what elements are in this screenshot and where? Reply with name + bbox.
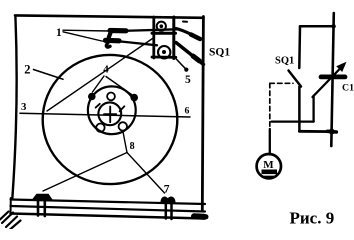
base rail bottom line — [11, 214, 206, 219]
wire: right rail — [331, 13, 334, 146]
left bolt head — [32, 194, 53, 200]
svg-text:SQ1: SQ1 — [209, 47, 230, 59]
capacitor C1 link vertical — [312, 96, 314, 122]
wire: switch top drop — [298, 26, 301, 68]
contact strip 2 — [119, 41, 157, 45]
hub tick right — [120, 106, 125, 111]
base rail right end block — [194, 213, 204, 220]
svg-text:3: 3 — [21, 101, 27, 113]
bracket right vertical — [172, 17, 175, 59]
svg-text:SQ1: SQ1 — [275, 56, 294, 67]
base rail left end cap — [10, 198, 12, 215]
node: junction top — [331, 24, 335, 28]
node: junction bottom right — [329, 129, 335, 135]
wire: top rail — [300, 25, 334, 28]
centerline 3-6 — [20, 113, 190, 117]
contact strip 1 — [126, 29, 177, 31]
base rail middle line — [11, 206, 206, 212]
contact spring 1 (to right edge) — [176, 29, 200, 39]
hub cross — [104, 107, 116, 123]
hub screw dot right (filled) — [130, 94, 138, 102]
hub small hole top — [107, 93, 115, 101]
leader 4 to left screw dot — [93, 76, 105, 92]
right bolt legs — [166, 202, 172, 219]
wire: motor node horizontal — [272, 120, 314, 122]
chamber outline (big cam shape) — [43, 55, 178, 184]
link junction to left bolt — [43, 153, 127, 192]
bracket left vertical — [152, 17, 155, 58]
svg-text:5: 5 — [185, 74, 191, 86]
screw bottom — [158, 46, 170, 58]
hub small hole bottom-right — [119, 122, 127, 130]
contact spring 2 (to right edge) — [176, 43, 204, 65]
small mark above bracket right — [183, 21, 187, 23]
motor AC bar thin — [264, 176, 276, 178]
leader 4 to right screw dot — [106, 77, 132, 95]
switch SQ1 blade — [289, 71, 302, 87]
switch SQ1 mechanical link dashes — [270, 82, 293, 84]
motor AC bar thick — [262, 170, 278, 175]
base rail top line — [11, 200, 206, 205]
capacitor C1 plate bar — [321, 75, 345, 80]
link junction to right bolt — [127, 153, 165, 194]
plate top edge — [15, 15, 204, 17]
spring hook 1 — [110, 28, 126, 33]
hub outer circle — [88, 86, 136, 134]
capacitor C1 arrow diagonal — [313, 65, 345, 98]
hub inner circle — [98, 102, 121, 125]
right bolt head — [161, 196, 176, 202]
bracket middle rung — [152, 32, 176, 35]
svg-text:8: 8 — [130, 141, 135, 152]
leader 5 — [175, 58, 187, 71]
left bolt legs — [38, 199, 45, 216]
hub tick left — [96, 104, 100, 108]
hub screw dot left (filled) — [88, 93, 96, 101]
motor M circle — [257, 154, 281, 178]
long leader line through 4 — [47, 39, 153, 112]
wire: bottom horizontal to rail — [299, 130, 332, 133]
plate right edge — [202, 17, 203, 212]
svg-text:1: 1 — [56, 27, 62, 39]
link from hub hole down to junction 8 — [123, 131, 127, 153]
svg-text:6: 6 — [185, 106, 190, 117]
leader from 2 to chamber — [34, 70, 64, 80]
leader 1 to hook2 — [63, 32, 106, 42]
leader 1 to hook1 — [63, 29, 109, 32]
svg-text:M: M — [263, 159, 274, 171]
capacitor C1 arrowhead — [336, 62, 346, 72]
wire: switch bottom — [298, 87, 301, 132]
hub small hole bottom-left — [96, 124, 104, 132]
wire: motor lead — [269, 129, 271, 155]
svg-text:7: 7 — [164, 183, 170, 195]
svg-text:Рис. 9: Рис. 9 — [290, 209, 335, 228]
screw top — [157, 22, 166, 31]
svg-text:2: 2 — [24, 63, 30, 77]
spring hook 2 — [106, 38, 120, 44]
plate left edge — [12, 16, 16, 199]
bracket bottom rung — [152, 56, 176, 59]
svg-text:C1: C1 — [342, 82, 354, 93]
hatching bottom-left — [0, 212, 21, 230]
svg-text:4: 4 — [103, 64, 109, 76]
